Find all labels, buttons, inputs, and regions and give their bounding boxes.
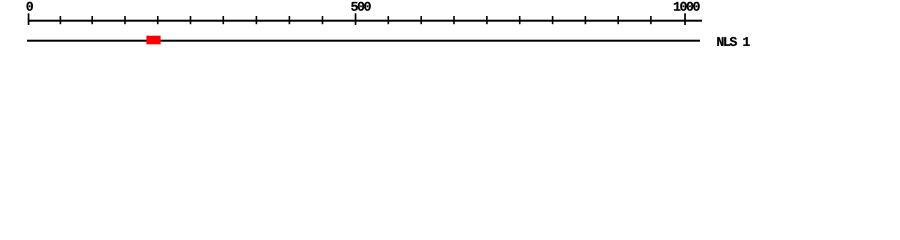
- feature label NLS 1: [717, 37, 750, 46]
- scale label 0: [27, 2, 33, 11]
- minor tick 450: [322, 16, 324, 24]
- ruler axis line (0-1000 scale): [28, 20, 702, 22]
- major tick 1000: [684, 13, 686, 25]
- minor tick 200: [157, 16, 159, 24]
- minor tick 400: [289, 16, 291, 24]
- background: [0, 0, 900, 58]
- major tick 0: [28, 13, 30, 25]
- scale label 1000: [674, 2, 700, 11]
- minor tick 300: [223, 16, 225, 24]
- minor tick 250: [190, 16, 192, 24]
- minor tick 750: [519, 16, 521, 24]
- minor tick 700: [486, 16, 488, 24]
- minor tick 850: [585, 16, 587, 24]
- major tick 500: [355, 13, 357, 25]
- minor tick 600: [420, 16, 422, 24]
- minor tick 100: [91, 16, 93, 24]
- feature marker NLS 1 (red box at ~residue 180-202): [146, 36, 160, 45]
- minor tick 650: [453, 16, 455, 24]
- minor tick 50: [60, 16, 62, 24]
- minor tick 950: [650, 16, 652, 24]
- minor tick 800: [552, 16, 554, 24]
- minor tick 150: [124, 16, 126, 24]
- minor tick 350: [256, 16, 258, 24]
- scale label 500: [351, 2, 371, 11]
- minor tick 550: [388, 16, 390, 24]
- minor tick 900: [617, 16, 619, 24]
- sequence line: [27, 40, 700, 42]
